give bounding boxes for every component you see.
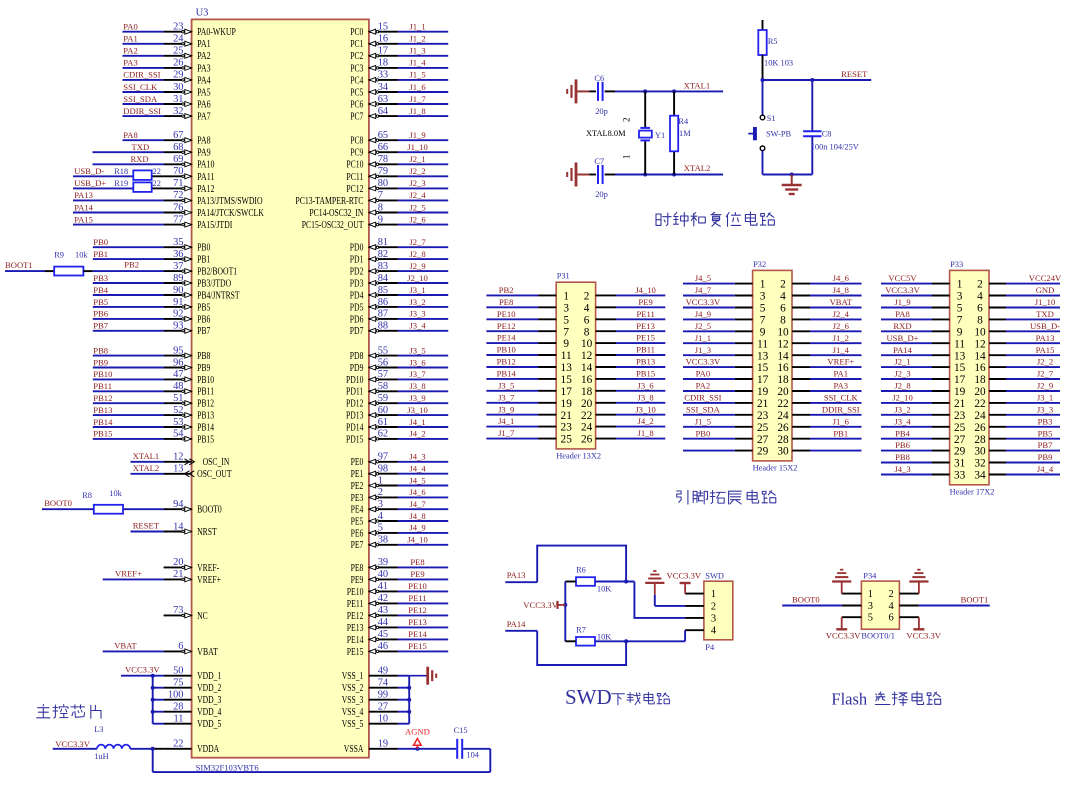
svg-text:PB9: PB9 xyxy=(1038,452,1053,462)
svg-text:PA8: PA8 xyxy=(123,130,138,140)
svg-text:PE10: PE10 xyxy=(408,581,427,591)
svg-text:PD11: PD11 xyxy=(346,387,363,398)
svg-text:PA13: PA13 xyxy=(507,570,526,580)
svg-text:13: 13 xyxy=(954,350,966,362)
svg-text:PB6: PB6 xyxy=(197,314,210,325)
svg-text:30: 30 xyxy=(173,82,183,93)
svg-text:17: 17 xyxy=(757,374,769,386)
svg-text:XTAL1: XTAL1 xyxy=(133,451,160,461)
svg-text:13: 13 xyxy=(173,464,183,475)
svg-text:50: 50 xyxy=(173,666,183,677)
svg-text:J2_10: J2_10 xyxy=(892,393,913,403)
svg-text:PA5: PA5 xyxy=(197,87,211,98)
svg-text:J3_4: J3_4 xyxy=(894,416,911,426)
svg-text:6: 6 xyxy=(888,613,893,624)
svg-text:PA4: PA4 xyxy=(197,75,211,86)
svg-text:29: 29 xyxy=(757,446,769,458)
svg-text:PE15: PE15 xyxy=(347,647,364,658)
svg-text:20p: 20p xyxy=(595,190,608,199)
svg-text:27: 27 xyxy=(757,434,769,446)
svg-text:56: 56 xyxy=(378,357,388,368)
svg-text:33: 33 xyxy=(378,70,388,81)
svg-text:PC9: PC9 xyxy=(350,148,363,159)
svg-text:J1_5: J1_5 xyxy=(695,416,711,426)
svg-text:J2_1: J2_1 xyxy=(409,154,425,164)
svg-text:52: 52 xyxy=(173,405,183,416)
svg-text:BOOT0: BOOT0 xyxy=(792,595,820,605)
svg-text:PC14-OSC32_IN: PC14-OSC32_IN xyxy=(309,208,363,219)
svg-text:PE13: PE13 xyxy=(636,321,655,331)
svg-text:J3_9: J3_9 xyxy=(409,393,425,403)
svg-text:88: 88 xyxy=(378,321,388,332)
svg-text:6: 6 xyxy=(584,314,590,326)
svg-text:PA10: PA10 xyxy=(197,160,214,171)
svg-text:76: 76 xyxy=(173,202,183,213)
svg-text:24: 24 xyxy=(581,422,593,434)
svg-text:37: 37 xyxy=(173,261,183,272)
svg-text:72: 72 xyxy=(173,190,183,201)
svg-text:VCC3.3V: VCC3.3V xyxy=(686,357,721,367)
svg-text:35: 35 xyxy=(173,237,183,248)
svg-text:PE6: PE6 xyxy=(351,528,364,539)
svg-text:R6: R6 xyxy=(576,566,586,575)
svg-text:74: 74 xyxy=(378,678,389,689)
svg-text:70: 70 xyxy=(173,166,183,177)
svg-text:VREF-: VREF- xyxy=(197,563,220,574)
svg-text:11: 11 xyxy=(561,350,572,362)
svg-text:PA8: PA8 xyxy=(197,136,211,147)
svg-text:R4: R4 xyxy=(678,117,689,126)
svg-text:44: 44 xyxy=(378,617,389,628)
svg-text:PA0: PA0 xyxy=(696,369,711,379)
svg-text:21: 21 xyxy=(954,398,965,410)
svg-text:PB8: PB8 xyxy=(93,345,108,355)
svg-text:J3_2: J3_2 xyxy=(894,404,910,414)
svg-text:20: 20 xyxy=(974,386,986,398)
svg-text:42: 42 xyxy=(378,593,388,604)
svg-text:VSS_1: VSS_1 xyxy=(342,671,364,682)
svg-text:PC2: PC2 xyxy=(350,51,363,62)
svg-text:PB1: PB1 xyxy=(93,249,108,259)
svg-text:VCC3.3V: VCC3.3V xyxy=(885,285,920,295)
svg-text:1: 1 xyxy=(957,279,963,291)
svg-text:PB6: PB6 xyxy=(895,440,911,450)
svg-text:J2_6: J2_6 xyxy=(409,214,426,224)
svg-text:RXD: RXD xyxy=(893,321,911,331)
svg-text:6: 6 xyxy=(780,303,786,315)
svg-text:PE12: PE12 xyxy=(408,605,427,615)
svg-text:XTAL8.0M: XTAL8.0M xyxy=(586,129,626,138)
svg-text:23: 23 xyxy=(757,410,769,422)
svg-text:J1_9: J1_9 xyxy=(409,130,425,140)
svg-text:PB9: PB9 xyxy=(197,363,210,374)
svg-text:17: 17 xyxy=(561,386,573,398)
svg-text:11: 11 xyxy=(173,714,183,725)
svg-text:PA14: PA14 xyxy=(74,202,93,212)
svg-text:PC10: PC10 xyxy=(346,160,363,171)
svg-text:69: 69 xyxy=(173,154,183,165)
svg-text:VBAT: VBAT xyxy=(114,641,137,651)
svg-text:14: 14 xyxy=(777,350,789,362)
svg-text:95: 95 xyxy=(173,345,183,356)
svg-text:VREF+: VREF+ xyxy=(197,575,221,586)
svg-text:24: 24 xyxy=(777,410,789,422)
svg-text:34: 34 xyxy=(974,470,986,482)
svg-text:PA13: PA13 xyxy=(74,190,93,200)
svg-text:23: 23 xyxy=(954,410,966,422)
svg-text:OSC_OUT: OSC_OUT xyxy=(197,469,232,480)
svg-text:27: 27 xyxy=(954,434,966,446)
svg-text:PD8: PD8 xyxy=(350,351,364,362)
svg-text:PE0: PE0 xyxy=(351,457,364,468)
svg-text:30: 30 xyxy=(974,446,986,458)
svg-text:93: 93 xyxy=(173,321,183,332)
svg-text:VCC3.3V: VCC3.3V xyxy=(686,297,721,307)
svg-text:58: 58 xyxy=(378,381,388,392)
svg-text:PA3: PA3 xyxy=(834,381,849,391)
svg-text:J4_4: J4_4 xyxy=(409,464,426,474)
svg-text:13: 13 xyxy=(757,350,769,362)
svg-text:RESET: RESET xyxy=(133,521,160,531)
svg-text:J1_7: J1_7 xyxy=(409,94,426,104)
svg-text:45: 45 xyxy=(378,629,388,640)
svg-text:48: 48 xyxy=(173,381,183,392)
svg-text:J2_7: J2_7 xyxy=(409,237,426,247)
svg-text:PD10: PD10 xyxy=(346,375,363,386)
svg-text:12: 12 xyxy=(581,350,593,362)
svg-text:J2_5: J2_5 xyxy=(409,202,425,212)
svg-text:PB2: PB2 xyxy=(499,285,514,295)
svg-text:XTAL2: XTAL2 xyxy=(684,163,711,173)
svg-text:J4_5: J4_5 xyxy=(695,273,711,283)
svg-text:20p: 20p xyxy=(595,107,608,116)
svg-text:PA15: PA15 xyxy=(74,214,93,224)
svg-text:25: 25 xyxy=(561,434,573,446)
svg-text:81: 81 xyxy=(378,237,388,248)
svg-text:J4_1: J4_1 xyxy=(498,416,514,426)
svg-text:6: 6 xyxy=(178,641,183,652)
svg-text:P31: P31 xyxy=(557,272,570,281)
svg-text:25: 25 xyxy=(173,46,183,57)
svg-text:PB14: PB14 xyxy=(497,369,517,379)
svg-text:PD7: PD7 xyxy=(350,326,364,337)
svg-text:J1_4: J1_4 xyxy=(409,58,426,68)
svg-text:J3_5: J3_5 xyxy=(498,380,514,390)
svg-text:VCC3.3V: VCC3.3V xyxy=(55,739,90,749)
svg-text:29: 29 xyxy=(954,446,966,458)
svg-text:PA15/JTDI: PA15/JTDI xyxy=(197,220,233,231)
svg-text:J3_5: J3_5 xyxy=(409,345,425,355)
svg-text:2: 2 xyxy=(780,279,786,291)
svg-text:67: 67 xyxy=(173,130,183,141)
svg-text:R9: R9 xyxy=(54,251,64,260)
svg-text:100: 100 xyxy=(168,690,184,701)
svg-text:PA14: PA14 xyxy=(893,345,912,355)
svg-text:27: 27 xyxy=(378,702,388,713)
svg-text:26: 26 xyxy=(777,422,789,434)
svg-text:U3: U3 xyxy=(196,8,209,19)
svg-text:PA14/JTCK/SWCLK: PA14/JTCK/SWCLK xyxy=(197,208,264,219)
svg-text:9: 9 xyxy=(563,338,569,350)
svg-text:PB14: PB14 xyxy=(93,417,113,427)
svg-text:63: 63 xyxy=(378,94,388,105)
svg-text:OSC_IN: OSC_IN xyxy=(203,457,230,468)
svg-text:31: 31 xyxy=(954,458,965,470)
svg-text:Header 17X2: Header 17X2 xyxy=(950,487,995,496)
svg-text:USB_D+: USB_D+ xyxy=(74,178,106,188)
svg-text:J3_6: J3_6 xyxy=(637,380,654,390)
svg-text:PD6: PD6 xyxy=(350,314,364,325)
svg-text:9: 9 xyxy=(760,326,766,338)
svg-text:32: 32 xyxy=(173,106,183,117)
svg-text:PB7: PB7 xyxy=(1038,440,1054,450)
svg-text:7: 7 xyxy=(957,315,963,327)
svg-text:VCC3.3V: VCC3.3V xyxy=(125,665,160,675)
svg-text:USB_D-: USB_D- xyxy=(74,166,104,176)
svg-text:16: 16 xyxy=(974,362,986,374)
svg-text:PB15: PB15 xyxy=(636,369,655,379)
svg-text:2: 2 xyxy=(378,487,383,498)
svg-text:10K 103: 10K 103 xyxy=(764,59,793,68)
svg-text:79: 79 xyxy=(378,166,388,177)
svg-text:8: 8 xyxy=(378,202,383,213)
svg-text:47: 47 xyxy=(173,369,183,380)
svg-text:PE9: PE9 xyxy=(351,575,364,586)
svg-text:24: 24 xyxy=(173,34,184,45)
svg-text:PA8: PA8 xyxy=(895,309,910,319)
svg-text:43: 43 xyxy=(378,605,388,616)
svg-text:8: 8 xyxy=(977,315,983,327)
svg-text:J1_1: J1_1 xyxy=(695,333,711,343)
svg-text:P4: P4 xyxy=(705,643,715,652)
svg-text:32: 32 xyxy=(974,458,986,470)
svg-text:22: 22 xyxy=(581,410,593,422)
svg-text:PD1: PD1 xyxy=(350,255,364,266)
svg-text:PB3: PB3 xyxy=(93,273,108,283)
svg-text:J2_2: J2_2 xyxy=(409,166,425,176)
svg-text:64: 64 xyxy=(378,106,389,117)
svg-text:80: 80 xyxy=(378,178,388,189)
svg-text:PB3/JTDO: PB3/JTDO xyxy=(197,278,231,289)
svg-text:C8: C8 xyxy=(822,130,832,139)
svg-text:92: 92 xyxy=(173,309,183,320)
svg-text:PC8: PC8 xyxy=(350,136,363,147)
svg-text:PB15: PB15 xyxy=(197,434,214,445)
svg-text:8: 8 xyxy=(780,315,786,327)
svg-text:J1_9: J1_9 xyxy=(894,297,910,307)
svg-text:3: 3 xyxy=(378,499,383,510)
svg-text:5: 5 xyxy=(868,613,873,624)
svg-text:R8: R8 xyxy=(82,491,92,500)
svg-text:VREF+: VREF+ xyxy=(115,569,142,579)
svg-text:Header 13X2: Header 13X2 xyxy=(556,451,601,460)
svg-text:J2_10: J2_10 xyxy=(407,273,428,283)
svg-text:Y1: Y1 xyxy=(655,131,665,140)
svg-text:4: 4 xyxy=(584,302,590,314)
svg-text:38: 38 xyxy=(378,535,388,546)
svg-text:VSS_3: VSS_3 xyxy=(342,695,364,706)
svg-text:PB1: PB1 xyxy=(833,428,848,438)
svg-text:39: 39 xyxy=(378,557,388,568)
svg-text:TXD: TXD xyxy=(1036,309,1054,319)
svg-text:21: 21 xyxy=(561,410,572,422)
svg-text:SSI_CLK: SSI_CLK xyxy=(123,82,158,92)
svg-text:J1_4: J1_4 xyxy=(833,345,850,355)
svg-text:4: 4 xyxy=(888,601,894,612)
svg-text:J2_3: J2_3 xyxy=(894,369,910,379)
svg-text:PE11: PE11 xyxy=(636,309,654,319)
svg-text:51: 51 xyxy=(173,393,183,404)
svg-text:NC: NC xyxy=(197,611,208,622)
svg-text:PE15: PE15 xyxy=(408,641,427,651)
svg-text:7: 7 xyxy=(378,190,383,201)
svg-text:12: 12 xyxy=(777,338,789,350)
svg-text:3: 3 xyxy=(563,302,569,314)
svg-text:40: 40 xyxy=(378,569,388,580)
svg-text:PD5: PD5 xyxy=(350,302,364,313)
svg-text:65: 65 xyxy=(378,130,388,141)
svg-text:PE10: PE10 xyxy=(347,587,364,598)
svg-text:10: 10 xyxy=(581,338,593,350)
svg-text:28: 28 xyxy=(974,434,986,446)
svg-text:22: 22 xyxy=(974,398,986,410)
svg-text:19: 19 xyxy=(757,386,769,398)
svg-text:J4_9: J4_9 xyxy=(695,309,711,319)
svg-text:USB_D-: USB_D- xyxy=(1030,321,1060,331)
svg-text:34: 34 xyxy=(378,82,389,93)
svg-text:J4_8: J4_8 xyxy=(409,511,425,521)
svg-text:J4_9: J4_9 xyxy=(409,523,425,533)
svg-text:PA3: PA3 xyxy=(197,63,211,74)
svg-text:PA3: PA3 xyxy=(123,58,138,68)
svg-text:61: 61 xyxy=(378,417,388,428)
svg-text:PC1: PC1 xyxy=(350,39,363,50)
svg-text:9: 9 xyxy=(378,214,383,225)
svg-text:16: 16 xyxy=(581,374,593,386)
svg-text:26: 26 xyxy=(581,434,593,446)
svg-text:7: 7 xyxy=(563,326,569,338)
svg-text:PE2: PE2 xyxy=(351,481,364,492)
svg-text:J1_10: J1_10 xyxy=(407,142,428,152)
svg-text:PA15: PA15 xyxy=(1036,345,1055,355)
svg-text:J2_3: J2_3 xyxy=(409,178,425,188)
svg-text:J1_6: J1_6 xyxy=(409,82,426,92)
svg-text:J1_2: J1_2 xyxy=(409,34,425,44)
svg-text:PB13: PB13 xyxy=(197,411,214,422)
svg-text:6: 6 xyxy=(977,303,983,315)
svg-text:R18: R18 xyxy=(114,167,128,176)
svg-text:J2_9: J2_9 xyxy=(409,261,425,271)
svg-text:PC5: PC5 xyxy=(350,87,363,98)
svg-text:PA0-WKUP: PA0-WKUP xyxy=(197,27,236,38)
svg-text:PB13: PB13 xyxy=(636,357,655,367)
svg-text:PE7: PE7 xyxy=(351,540,364,551)
svg-text:10: 10 xyxy=(378,714,388,725)
svg-text:PB10: PB10 xyxy=(197,375,214,386)
svg-text:PD13: PD13 xyxy=(346,411,363,422)
svg-text:PB5: PB5 xyxy=(1038,428,1053,438)
svg-text:73: 73 xyxy=(173,605,183,616)
svg-text:J4_10: J4_10 xyxy=(635,285,656,295)
svg-text:PB4: PB4 xyxy=(93,285,109,295)
svg-text:82: 82 xyxy=(378,249,388,260)
svg-text:J1_5: J1_5 xyxy=(409,70,425,80)
svg-text:XTAL2: XTAL2 xyxy=(133,463,160,473)
svg-text:XTAL1: XTAL1 xyxy=(684,80,711,90)
svg-text:28: 28 xyxy=(777,434,789,446)
svg-text:RXD: RXD xyxy=(130,154,148,164)
svg-text:1M: 1M xyxy=(679,129,691,138)
svg-text:SSI_CLK: SSI_CLK xyxy=(824,393,859,403)
svg-text:1: 1 xyxy=(760,279,766,291)
svg-text:J2_6: J2_6 xyxy=(833,321,850,331)
svg-text:J4_1: J4_1 xyxy=(409,417,425,427)
svg-text:J3_1: J3_1 xyxy=(1037,393,1053,403)
svg-text:PE13: PE13 xyxy=(347,623,364,634)
svg-text:86: 86 xyxy=(378,297,388,308)
svg-text:20: 20 xyxy=(173,557,183,568)
svg-text:2: 2 xyxy=(888,589,893,600)
svg-text:36: 36 xyxy=(173,249,183,260)
svg-text:18: 18 xyxy=(378,58,388,69)
svg-text:10k: 10k xyxy=(75,251,88,260)
svg-text:PE13: PE13 xyxy=(408,617,427,627)
svg-text:89: 89 xyxy=(173,273,183,284)
svg-text:9: 9 xyxy=(957,326,963,338)
svg-text:R19: R19 xyxy=(114,179,128,188)
svg-text:J4_7: J4_7 xyxy=(695,285,712,295)
svg-text:PA7: PA7 xyxy=(197,112,211,123)
svg-text:68: 68 xyxy=(173,142,183,153)
svg-text:PD0: PD0 xyxy=(350,243,364,254)
svg-text:J3_10: J3_10 xyxy=(407,405,428,415)
svg-text:PE8: PE8 xyxy=(499,297,513,307)
svg-text:PC11: PC11 xyxy=(346,172,363,183)
svg-text:VCC3.3V: VCC3.3V xyxy=(667,571,702,581)
svg-text:91: 91 xyxy=(173,297,183,308)
svg-text:J4_6: J4_6 xyxy=(409,487,426,497)
svg-text:PB7: PB7 xyxy=(197,326,210,337)
svg-text:PA1: PA1 xyxy=(123,34,138,44)
svg-text:VDD_4: VDD_4 xyxy=(197,707,221,718)
svg-text:54: 54 xyxy=(173,429,184,440)
svg-text:AGND: AGND xyxy=(405,727,430,737)
svg-text:VSS_2: VSS_2 xyxy=(342,683,364,694)
svg-text:VDD_2: VDD_2 xyxy=(197,683,221,694)
svg-text:55: 55 xyxy=(378,345,388,356)
svg-text:J4_6: J4_6 xyxy=(833,273,850,283)
svg-text:15: 15 xyxy=(561,374,573,386)
svg-text:J2_9: J2_9 xyxy=(1037,381,1053,391)
svg-text:PE9: PE9 xyxy=(410,569,424,579)
svg-text:PB13: PB13 xyxy=(93,405,112,415)
svg-text:18: 18 xyxy=(974,374,986,386)
svg-text:J4_7: J4_7 xyxy=(409,499,426,509)
svg-text:SWD: SWD xyxy=(705,572,724,581)
svg-text:NRST: NRST xyxy=(197,527,217,538)
svg-text:28: 28 xyxy=(173,702,183,713)
svg-text:26: 26 xyxy=(974,422,986,434)
svg-text:L3: L3 xyxy=(94,725,103,734)
svg-text:J4_3: J4_3 xyxy=(409,452,425,462)
svg-text:SSI_SDA: SSI_SDA xyxy=(686,404,721,414)
svg-text:VSS_4: VSS_4 xyxy=(342,707,364,718)
svg-text:PC13-TAMPER-RTC: PC13-TAMPER-RTC xyxy=(295,196,363,207)
svg-text:J4_2: J4_2 xyxy=(409,429,425,439)
svg-text:VBAT: VBAT xyxy=(197,647,218,658)
svg-text:1uH: 1uH xyxy=(94,752,108,761)
svg-text:11: 11 xyxy=(954,338,965,350)
